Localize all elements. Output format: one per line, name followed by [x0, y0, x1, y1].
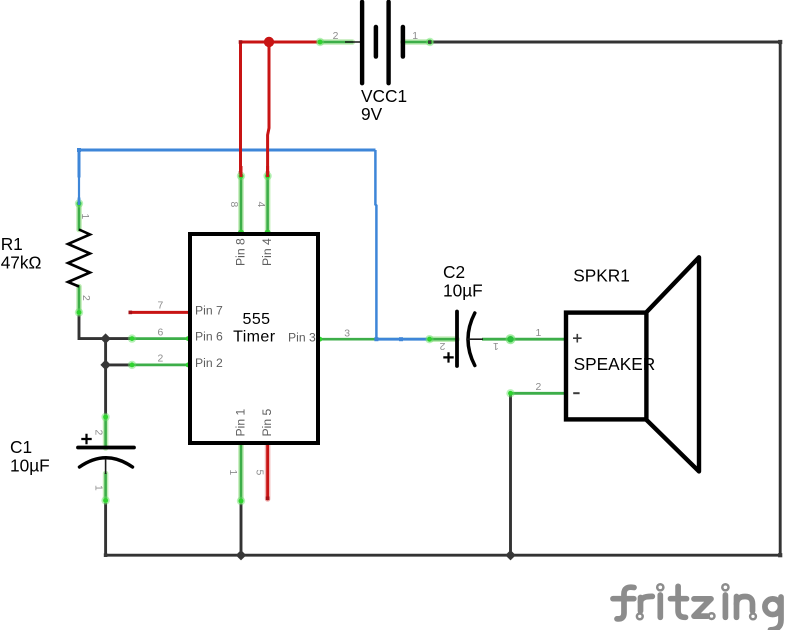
svg-text:8: 8: [228, 202, 239, 208]
svg-text:1: 1: [227, 470, 238, 476]
pin green 555 pin3 net to C2: [320, 338, 431, 341]
wire bottom horizontal: [106, 554, 781, 557]
svg-text:2: 2: [80, 295, 91, 301]
pin green speaker pin1: [511, 338, 566, 341]
pin green C2 pin1 to junction: [482, 338, 511, 341]
fritzing logo: [613, 586, 781, 630]
wire blue R1 pin1 up upper: [78, 150, 81, 178]
svg-text:Pin 5: Pin 5: [260, 408, 274, 436]
battery VCC1 short plate 1: [374, 27, 379, 57]
capacitor C1 curved plate: [80, 458, 133, 467]
pin green C1 pin1: [103, 474, 109, 501]
node black endpoint under battery pin1: [428, 40, 431, 43]
node black junction A diamond: [100, 333, 110, 343]
svg-text:2: 2: [333, 31, 339, 42]
svg-text:C2: C2: [443, 262, 465, 282]
wire blue R1 pin1 up lower: [78, 178, 80, 205]
svg-text:7: 7: [158, 301, 164, 312]
battery VCC1 long plate 2: [386, 2, 390, 83]
svg-text:10µF: 10µF: [443, 280, 483, 300]
fritzing logo rings: [637, 584, 756, 619]
pin green speaker pin2: [511, 392, 566, 395]
battery VCC1 stub wire left: [345, 41, 362, 43]
speaker SPKR1 body: [566, 313, 646, 420]
wire junction B to C1 pin2: [104, 365, 107, 417]
svg-text:1: 1: [412, 31, 418, 42]
wire R1 pin2 to junction A: [79, 313, 106, 339]
wire red tip over 555 pin8 marker: [240, 166, 243, 177]
svg-text:Timer: Timer: [233, 328, 276, 345]
svg-text:R1: R1: [1, 234, 23, 254]
svg-text:2: 2: [158, 354, 164, 365]
wire blue overlay on pin3 net: [376, 338, 429, 341]
pin green C1 pin2: [103, 417, 109, 448]
wire 555 pin1 to bottom wire: [240, 501, 243, 555]
wire right vertical: [779, 42, 782, 555]
node blue endpoint squares: [77, 148, 403, 341]
svg-text:1: 1: [79, 214, 90, 220]
wire blue vertical mid: [375, 150, 376, 339]
svg-text:1: 1: [536, 328, 542, 339]
node red endpoint squares: [129, 40, 270, 500]
node red junction at VCC: [264, 37, 274, 47]
wire red vertical to 555 pin4: [268, 42, 269, 174]
label speaker plus: [573, 334, 582, 343]
wire C1 pin1 to bottom wire: [104, 501, 107, 556]
label speaker minus: [573, 392, 579, 394]
svg-text:6: 6: [158, 327, 164, 338]
battery VCC1 long plate 1: [360, 2, 364, 83]
resistor R1 zigzag: [68, 230, 90, 287]
svg-text:9V: 9V: [361, 104, 383, 124]
svg-text:Pin 4: Pin 4: [260, 238, 274, 266]
wire junction B to 555 pin2: [106, 363, 132, 366]
pin green R1 pin2: [76, 287, 82, 313]
svg-text:1: 1: [93, 485, 104, 491]
wire red 555 pin7 stub: [130, 311, 188, 314]
svg-text:2: 2: [93, 430, 104, 436]
svg-text:1: 1: [493, 340, 499, 351]
capacitor C1 plus sign: [81, 434, 91, 444]
capacitor C2 plus sign: [443, 352, 453, 362]
node black endpoint bottom-left: [104, 553, 108, 557]
wire red tip over 555 pin4 marker: [266, 166, 269, 177]
wire junction A to 555 pin6: [106, 337, 132, 340]
pin green battery pin2: [320, 39, 352, 45]
wire red VCC top horizontal: [241, 41, 321, 44]
node black junction bottom pin1 diamond: [236, 550, 246, 560]
svg-text:2: 2: [439, 340, 445, 351]
svg-text:555: 555: [243, 311, 271, 328]
wire speaker pin2 down to bottom wire: [509, 393, 512, 555]
svg-text:Pin 7: Pin 7: [195, 304, 223, 318]
svg-text:VCC1: VCC1: [361, 86, 407, 106]
op-amp 555 timer body U1: [190, 234, 318, 443]
capacitor C1 lead: [105, 459, 107, 474]
wire battery pin1 to top-right corner: [430, 41, 780, 44]
pin green 555 pin4: [265, 176, 271, 233]
svg-text:Pin 8: Pin 8: [234, 238, 248, 266]
capacitor C1 straight plate: [78, 446, 134, 450]
svg-text:4: 4: [255, 202, 266, 208]
capacitor C2 straight plate: [455, 312, 459, 367]
wire blue tip over R1 pin1 marker: [78, 198, 81, 206]
node black endpoint top-right corner: [778, 40, 782, 44]
wire junction A to junction B: [104, 339, 107, 365]
node black junction bottom speaker diamond: [505, 550, 515, 560]
pin green 555 pin2: [132, 363, 188, 366]
svg-text:Pin 6: Pin 6: [195, 330, 223, 344]
svg-text:Pin 1: Pin 1: [234, 408, 248, 436]
pin green battery pin1: [403, 39, 430, 45]
svg-text:5: 5: [253, 470, 264, 476]
node black junction B diamond: [100, 360, 110, 370]
node green endpoint markers: [75, 38, 516, 505]
capacitor C2 curved plate: [468, 313, 475, 366]
pin green 555 pin1: [238, 445, 244, 501]
svg-text:47kΩ: 47kΩ: [1, 252, 42, 272]
svg-text:10µF: 10µF: [10, 455, 50, 475]
wire red 555 pin5 stub: [265, 445, 271, 499]
wire red vertical to 555 pin8: [239, 42, 242, 174]
speaker SPKR1 horn: [646, 257, 699, 471]
svg-text:SPKR1: SPKR1: [573, 266, 630, 286]
svg-text:C1: C1: [10, 437, 32, 457]
svg-text:2: 2: [536, 382, 542, 393]
svg-text:3: 3: [344, 328, 350, 339]
capacitor C2 lead: [467, 338, 483, 340]
battery VCC1 short plate 2: [401, 27, 406, 57]
pin green C2 pin2: [430, 336, 458, 342]
svg-text:Pin 2: Pin 2: [195, 356, 223, 370]
pin green 555 pin6: [132, 337, 188, 340]
svg-text:Pin 3: Pin 3: [288, 330, 316, 344]
node black endpoint bottom-right corner: [778, 553, 782, 557]
pin green R1 pin1: [76, 204, 82, 230]
pin green 555 pin8: [238, 176, 244, 233]
svg-text:SPEAKER: SPEAKER: [574, 354, 656, 374]
wire blue horizontal top: [79, 149, 376, 152]
